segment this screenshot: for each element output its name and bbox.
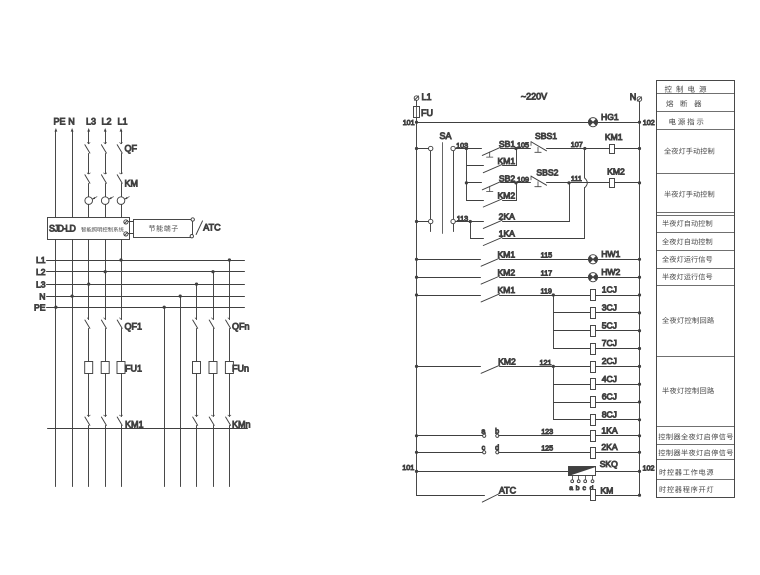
wire 101 to SA top [417,148,429,150]
svg-text:L2: L2 [101,117,111,127]
contact KM1 (run signal) [481,258,500,266]
wire controller to terminal block bottom [129,233,134,235]
contactor KMx pole [87,415,90,416]
svg-text:KM1: KM1 [125,420,144,430]
contact KM2 aux (hold) [483,199,502,207]
switch SA contact circle [429,219,433,223]
svg-text:6CJ: 6CJ [602,392,617,402]
table row line [657,285,735,287]
breaker QFx pole [104,318,105,319]
wire between KM and CT [105,184,107,197]
wire 1KA to 107 with hop [503,238,585,240]
svg-text:102: 102 [643,463,655,472]
current transformer circle [85,197,93,205]
svg-text:KM2: KM2 [497,190,515,200]
wire 101 to KM1 signal contact [417,259,481,261]
svg-text:101: 101 [402,463,414,472]
svg-text:123: 123 [541,427,553,436]
svg-text:d: d [495,443,499,452]
table text 半夜灯自动控制 [662,220,668,227]
wire 103 to KM1 aux [467,165,484,167]
wire 101 to SKQ [417,471,569,473]
coil 2CJ [591,362,596,373]
svg-text:L3: L3 [86,117,96,127]
breaker QFx pole [228,318,229,319]
function table frame [657,81,735,498]
lamp HW1 [588,255,597,264]
wire CT to controller box [121,205,123,218]
wire 1CJ to N [596,295,640,297]
wire FU to KM [105,374,107,417]
wire 103 to KM2 aux [467,200,484,202]
wire PE feeder continue [55,308,57,487]
table row line [657,268,735,270]
wire L3 box to bus [88,240,90,285]
contactor KM pole contact [87,173,90,174]
wire CJ branch vertical 2 [553,367,555,420]
wire L1 incomer arrow [120,128,123,132]
wire N drop [72,131,74,218]
junction bus [228,258,231,261]
breaker QF pole contact [87,143,90,144]
svg-text:KM2: KM2 [497,267,515,277]
switch SA pole bar 1 [430,147,432,232]
svg-text:SKQ: SKQ [600,459,618,469]
junction bus [179,295,182,298]
breaker QF pole contact [120,143,123,144]
wire 6CJ to N [596,402,640,404]
coil 2KA [591,448,596,459]
wire 101 to terminal c [417,452,483,454]
table row line [657,250,735,252]
terminal c [483,451,486,454]
wire QF to FU [196,329,198,362]
wire 101 to KM1 CJ contact [417,295,481,297]
lamp HW2 [588,273,597,282]
wire KM1 aux to 105 [503,165,517,167]
controller output terminal 1 [124,220,128,224]
wire branch to 5CJ [554,330,591,332]
wire main control vertical (101) [416,123,418,496]
wire KM to load [196,426,198,487]
svg-text:119: 119 [540,286,551,295]
svg-text:PE: PE [34,302,46,312]
svg-text:117: 117 [541,269,552,278]
table row line [657,232,735,234]
wire branch to 7CJ [554,348,591,350]
wire controller to terminal block top [129,221,134,223]
contactor KMx pole [104,415,107,416]
wire FU to KM [196,374,198,417]
breaker QFx pole [212,318,213,319]
svg-text:5CJ: 5CJ [602,320,617,330]
wire 7CJ to N [596,348,640,350]
wire QF to FU [88,329,90,362]
wire 101 to terminal a [417,435,483,437]
svg-text:KM: KM [125,179,139,189]
svg-text:111: 111 [571,174,582,183]
wire KM2 aux to 109 [503,200,517,202]
svg-text:SB1: SB1 [499,139,515,149]
svg-text:c: c [582,485,586,492]
wire branch to 8CJ [554,419,591,421]
table text 半夜灯运行信号 [662,273,668,280]
button SB1 [482,147,500,155]
svg-text:KM2: KM2 [498,357,516,367]
wire N drop [639,102,641,123]
contactor KM pole contact [120,173,123,174]
fuse FUx [85,362,93,374]
coil 3CJ [591,308,596,319]
wire 4CJ to N [596,384,640,386]
wire 117 [500,277,589,279]
table row line [657,212,735,214]
wire HW2 to N [598,277,640,279]
wire between QF and KM [105,154,107,174]
time controller SKQ [569,467,596,476]
svg-text:SBS1: SBS1 [535,131,557,141]
svg-text:SJD-LD: SJD-LD [49,224,75,234]
wire QF to FU [121,329,123,362]
wire CT to controller box [88,205,90,218]
wire phase drop upper [88,131,90,144]
svg-text:HW1: HW1 [601,249,620,259]
wire control phase rail 101 [417,122,640,124]
switch SA linkage [442,143,444,234]
wire KM1 coil to N [615,148,640,150]
wire QF to FU [229,329,231,362]
contact 2KA (auto half-night) [483,220,502,228]
wire feeder drop [121,261,123,320]
switch ATC blade [196,221,202,235]
wire 101 bottom corner to ATC [417,495,485,497]
svg-text:FUn: FUn [232,364,249,374]
switch SA contact circle [451,219,455,223]
SKQ terminal d [592,476,594,480]
table text 全夜灯自动控制 [662,238,669,245]
wire feeder drop [196,285,198,320]
contactor KMx pole [120,415,123,416]
table text 控制器全夜灯启停信号 [659,433,666,440]
svg-text:c: c [482,443,486,452]
wire KM to load [105,426,107,487]
table text 半夜灯手动控制 [664,191,670,198]
table text 时控器程序开灯 [660,486,666,493]
svg-text:KM1: KM1 [605,132,623,142]
terminal block 节能端子 box [134,220,193,238]
wire between KM and CT [121,184,123,197]
coil 6CJ [591,397,596,408]
switch SA pole bar 2 [453,147,455,232]
lamp HG1 power indicator [588,118,597,127]
table text 半夜灯控制回路 [662,387,668,394]
coil 4CJ [591,379,596,390]
wire ATC to KM coil [499,495,591,497]
svg-text:FU: FU [421,108,433,118]
switch ATC terminal top [191,218,194,221]
table text 熔断器 [666,100,673,107]
fuse FUx [193,362,201,374]
svg-text:KM: KM [600,485,613,495]
contactor KMx pole [195,415,198,416]
contact ATC (time program) [482,494,498,502]
svg-text:N: N [630,92,637,102]
wire CJ branch vertical 1 [553,296,555,349]
fuse FUx [209,362,217,374]
svg-text:KM1: KM1 [497,156,515,166]
wire between KM and CT [88,184,90,197]
wire N box to bus [72,240,74,297]
wire node 103 to SB2 [467,182,482,184]
switch ATC terminal bottom [190,235,193,238]
svg-text:~220V: ~220V [521,92,547,102]
wire SKQ to N [596,471,640,473]
wire 105 [501,148,531,150]
button SB2 [482,182,500,190]
svg-text:SB2: SB2 [499,173,515,183]
svg-text:b: b [495,426,499,435]
wire branch to 4CJ [554,384,591,386]
svg-text:109: 109 [517,175,529,184]
wire Nn tap [180,297,182,487]
coil KM2 [610,179,615,188]
table text 电源指示 [669,118,675,125]
breaker QFx pole [195,318,196,319]
wire 123 [499,435,591,437]
svg-text:2KA: 2KA [499,212,516,222]
svg-text:1CJ: 1CJ [602,285,617,295]
wire 5CJ to N [596,330,640,332]
svg-text:KM1: KM1 [497,285,515,295]
wire N feeder continue [72,297,74,487]
table row line [657,444,735,446]
wire 2KA coil to N [596,452,640,454]
svg-text:L3: L3 [36,279,46,289]
svg-text:a: a [569,485,573,492]
table row line [657,129,735,131]
svg-text:FU1: FU1 [125,364,142,374]
table row line [657,479,735,481]
wire 3CJ to N [596,312,640,314]
wire FU to KM [213,374,215,417]
wire node 103 vertical [466,149,468,201]
table text 控制器半夜灯启停信号 [659,449,666,456]
current transformer circle [101,197,109,205]
wire FU to KM [121,374,123,417]
wire between QF and KM [88,154,90,174]
svg-text:1KA: 1KA [499,229,516,239]
wire 115 [500,259,589,261]
svg-text:HG1: HG1 [601,112,619,122]
load line [48,428,248,430]
wire CT to controller box [105,205,107,218]
fuse FUx [117,362,125,374]
svg-text:115: 115 [541,251,552,260]
svg-text:125: 125 [541,444,553,453]
wire node 113 [456,221,484,223]
wire feeder drop [88,285,90,320]
svg-text:2KA: 2KA [601,442,618,452]
coil 8CJ [591,415,596,426]
svg-text:a: a [481,427,485,436]
svg-text:L2: L2 [36,267,46,277]
svg-text:N: N [39,291,45,301]
svg-text:L1: L1 [36,255,46,265]
contact KM2 (run signal) [481,276,500,284]
wire 125 [499,452,591,454]
wire KM coil to N [596,495,640,497]
terminal d [496,451,499,454]
svg-text:SA: SA [439,131,451,141]
wire L1 terminal to fuse [416,101,418,107]
wire 1KA coil to N [596,435,640,437]
wire FU to KM [229,374,231,417]
wire 107 [547,148,610,150]
wire 113 to 1KA [471,238,484,240]
wire HW1 to N [598,259,640,261]
fuse FUx [225,362,233,374]
contact KM2 (CJ group) [481,365,500,373]
switch SBS1 [530,142,532,146]
wire KM to load [213,426,215,487]
svg-text:SBS2: SBS2 [536,168,558,178]
wire 101 to KM2 CJ contact [417,366,481,368]
svg-text:102: 102 [643,118,655,127]
svg-text:121: 121 [540,358,552,367]
svg-text:L1: L1 [117,117,127,127]
svg-text:QF1: QF1 [125,322,143,332]
table row line [657,173,735,175]
table row line [657,356,735,358]
wire PE box to bus [55,240,57,308]
svg-text:KM2: KM2 [607,167,625,177]
table row line [657,111,735,113]
svg-text:KMn: KMn [232,420,251,430]
junction bus [104,270,107,273]
svg-text:4CJ: 4CJ [602,374,617,384]
contact KM1 (CJ group) [481,294,500,302]
table row line [657,459,735,461]
switch SA contact circle [451,146,455,150]
fuse FUx [101,362,109,374]
wire PE drop [55,131,57,218]
junction bus [87,283,90,286]
wire L3 incomer arrow [87,128,90,132]
wire phase drop upper [105,131,107,144]
wire PEn tap [164,308,166,487]
svg-text:N: N [68,117,75,127]
wire 8CJ to N [596,419,640,421]
junction bus [195,283,198,286]
table row line [657,215,735,217]
svg-text:105: 105 [517,141,529,150]
wire L1 box to bus [121,240,123,261]
wire KM to load [88,426,90,487]
breaker QFx pole [120,318,121,319]
SKQ terminal c [585,476,587,480]
wire feeder drop [105,272,107,320]
wire node 103 [456,148,482,150]
wire L2 incomer arrow [104,128,107,132]
svg-text:101: 101 [403,118,415,127]
switch SBS2 [530,176,532,180]
contact 1KA (auto all-night) [483,237,502,245]
wire node 113 vertical [470,222,472,239]
wire FU to KM [88,374,90,417]
SKQ terminal b [578,476,580,480]
junction bus [71,295,74,298]
current transformer circle [117,197,125,205]
wire 101 to SA bottom [417,221,429,223]
svg-text:8CJ: 8CJ [602,410,617,420]
wire N vertical (102) [639,123,641,496]
junction bus [54,306,57,309]
svg-text:1KA: 1KA [601,426,618,436]
coil 1CJ [591,290,596,301]
svg-text:3CJ: 3CJ [602,303,617,313]
table text 时控器工作电源 [660,469,666,476]
wire QF to FU [105,329,107,362]
wire KM to load [229,426,231,487]
svg-text:107: 107 [571,140,583,149]
wire QF to FU [213,329,215,362]
wire phase drop upper [121,131,123,144]
wire feeder drop [213,272,215,320]
coil 7CJ [591,344,596,355]
junction bus [211,270,214,273]
wire 2CJ to N [596,366,640,368]
wire 109 [501,182,531,184]
svg-text:HW2: HW2 [601,267,620,277]
table text 全夜灯手动控制 [664,148,671,155]
coil KM1 [610,145,615,154]
junction bus [163,306,166,309]
svg-text:KM1: KM1 [497,250,515,260]
wire 119 [500,295,591,297]
controller output terminal 2 [124,232,128,236]
table row line [657,426,735,428]
coil 1KA [591,431,596,442]
wire L2 box to bus [105,240,107,272]
svg-text:QF: QF [125,144,138,154]
svg-text:PE: PE [53,117,65,127]
junction bus [119,258,122,261]
table text 控制电源 [665,86,672,93]
table row line [657,93,735,95]
svg-text:ATC: ATC [499,486,517,496]
coil KM [591,490,596,501]
wire 111 [547,182,610,184]
breaker QF pole contact [104,143,107,144]
node L1 terminal (control supply) [414,96,419,101]
table text 全夜灯运行信号 [662,256,669,263]
SKQ terminal a [572,476,574,480]
switch SA contact circle [429,146,433,150]
terminal b [496,434,499,437]
svg-text:QFn: QFn [232,322,250,332]
fuse FU [414,107,420,118]
wire fuse to node 101 [416,118,418,123]
controller SJD-LD box [48,218,130,240]
wire between QF and KM [121,154,123,174]
svg-text:7CJ: 7CJ [602,338,617,348]
wire 2KA to 111 [503,221,570,223]
contact KM1 aux (hold) [483,165,502,173]
wire feeder drop [229,261,231,320]
wire 121 [500,366,591,368]
wire KM to load [121,426,123,487]
svg-text:ATC: ATC [203,223,221,233]
